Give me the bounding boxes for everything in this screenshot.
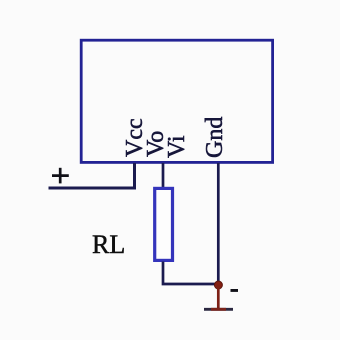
wire Gnd pin down	[217, 163, 220, 285]
ground symbol	[204, 308, 233, 311]
IC box U1	[81, 40, 272, 162]
+ terminal label	[52, 168, 69, 184]
svg-text:RL: RL	[92, 230, 125, 259]
wire Vo pin to resistor	[162, 163, 165, 188]
junction dot (ground node)	[214, 281, 222, 289]
svg-text:Vi: Vi	[164, 135, 190, 158]
ground lead	[217, 285, 220, 308]
wire Vcc pin to + terminal	[49, 163, 135, 188]
- terminal label	[231, 289, 239, 292]
wire resistor bottom to ground node	[163, 262, 218, 285]
resistor RL	[155, 188, 173, 260]
svg-text:Gnd: Gnd	[202, 117, 228, 158]
